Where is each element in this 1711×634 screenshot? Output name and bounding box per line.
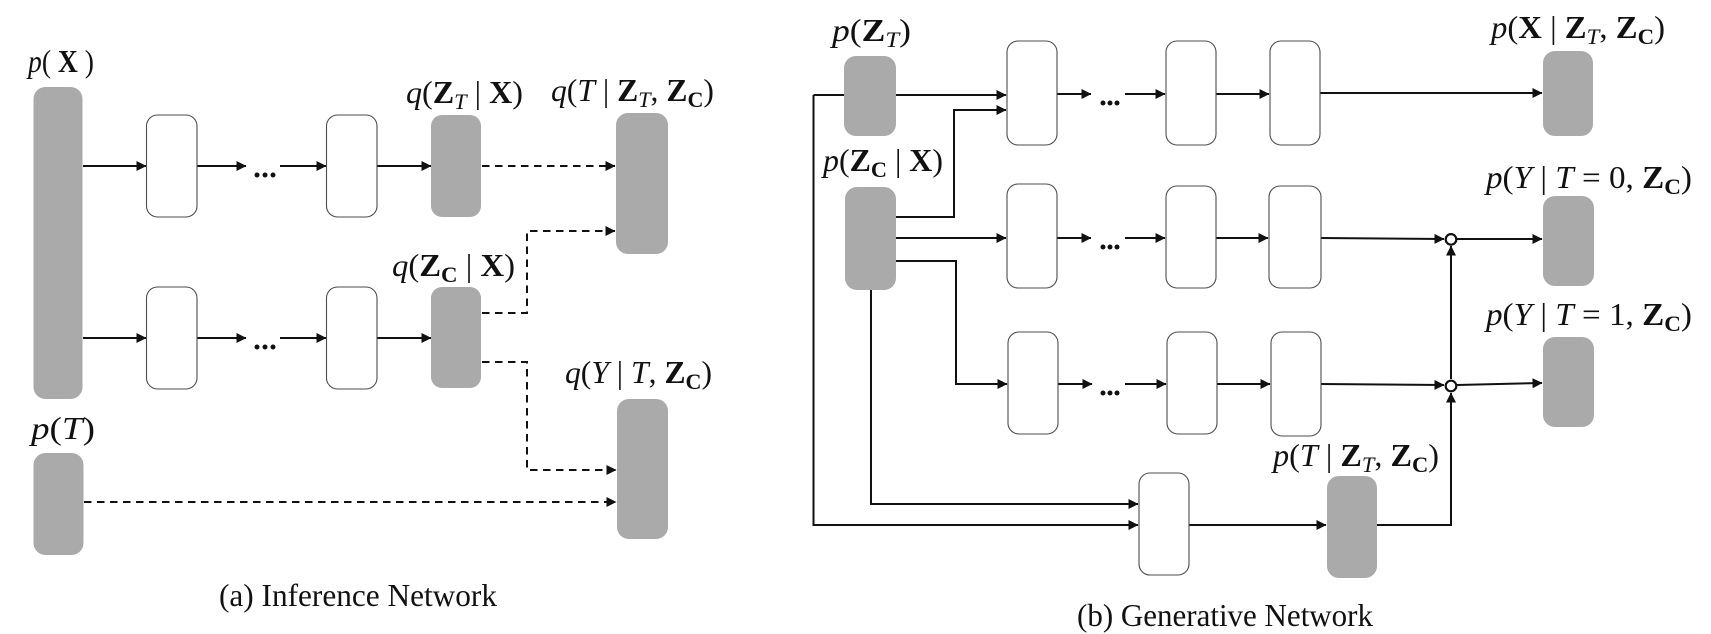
svg-text:p(T | ZT, ZC): p(T | ZT, ZC) — [1271, 438, 1439, 477]
svg-text:q(ZC | X): q(ZC | X) — [392, 248, 515, 287]
svg-text:p(X | ZT, ZC): p(X | ZT, ZC) — [1489, 10, 1665, 49]
svg-text:q(Y | T, ZC): q(Y | T, ZC) — [565, 355, 712, 394]
svg-text:p( X ): p( X ) — [26, 44, 94, 79]
svg-text:p(ZC | X): p(ZC | X) — [821, 143, 943, 182]
svg-text:q(T | ZT, ZC): q(T | ZT, ZC) — [551, 73, 714, 112]
svg-text:p(T): p(T) — [29, 411, 95, 446]
svg-text:p(Y | T = 1, ZC): p(Y | T = 1, ZC) — [1484, 297, 1692, 336]
svg-text:p(Y | T = 0, ZC): p(Y | T = 0, ZC) — [1484, 160, 1692, 199]
svg-text:q(ZT | X): q(ZT | X) — [406, 75, 523, 114]
svg-text:p(ZT): p(ZT) — [830, 13, 911, 52]
svg-text:(b) Generative Network: (b) Generative Network — [1077, 598, 1373, 633]
svg-text:(a) Inference Network: (a) Inference Network — [219, 578, 497, 613]
